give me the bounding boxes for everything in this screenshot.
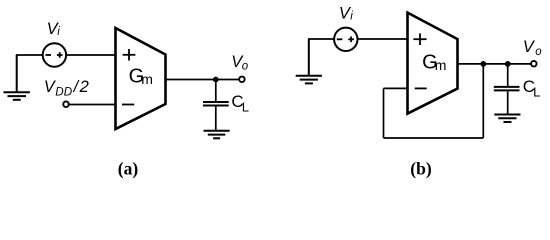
op-amp Gm (a) : OTA trapezoid (116, 28, 166, 129)
output terminal Vo (b) open circle (531, 61, 537, 66)
wire capacitor to ground (b) (507, 91, 509, 114)
op-amp Gm (b) : OTA trapezoid (408, 13, 458, 114)
svg-text:m: m (435, 57, 447, 73)
output wire (a) (166, 79, 239, 81)
wire from left ground corner to Vi source (a) (16, 54, 43, 56)
input terminal VDD/2 (a) open circle (63, 101, 69, 107)
ground (a) left under Vi source (4, 55, 30, 100)
svg-text:i: i (57, 26, 60, 38)
svg-text:o: o (535, 46, 542, 58)
voltage source Vi (a) (43, 43, 66, 66)
junction node dot (a) (213, 77, 219, 83)
wire feedback vertical right up to output node (b) (482, 64, 484, 138)
wire node to capacitor (a) (215, 80, 217, 102)
output terminal Vo (a) open circle (239, 77, 245, 83)
plus input marker inside amp (b) (413, 33, 426, 45)
ground (a) under capacitor (204, 131, 230, 139)
wire Vi source to op-amp + input (a) (66, 54, 116, 56)
label Gm (a) (129, 66, 153, 88)
ground (b) under Vi source (296, 39, 322, 83)
ground (b) under capacitor (494, 115, 520, 123)
junction node dot feedback (b) (480, 61, 486, 67)
label CL (a) (231, 92, 249, 114)
capacitor CL (a) (203, 102, 229, 106)
label Gm (b) (422, 52, 446, 74)
svg-text:L: L (533, 84, 540, 99)
label V_i (a) (47, 20, 61, 38)
label VDD/2 (a) (44, 78, 89, 99)
svg-text:(a): (a) (118, 159, 139, 179)
plus input marker inside amp (a) (123, 49, 136, 61)
wire capacitor to ground (a) (215, 106, 217, 130)
wire feedback from - input: left segment (b) (384, 87, 409, 89)
wire Vi source to op-amp + input (b) (358, 38, 409, 40)
svg-text:o: o (242, 61, 249, 73)
label CL (b) (523, 77, 541, 99)
svg-text:2: 2 (79, 78, 89, 96)
svg-text:L: L (242, 99, 249, 114)
wire feedback bottom horizontal (b) (384, 137, 484, 139)
wire node to capacitor (b) (507, 64, 509, 86)
label Vo (b) (523, 38, 543, 58)
minus input marker inside amp (b) (415, 87, 427, 89)
svg-text:i: i (350, 11, 353, 23)
label Vo (a) (231, 53, 249, 73)
wire VDD/2 terminal to op-amp - input (a) (69, 104, 116, 106)
junction node dot capacitor (b) (505, 61, 511, 67)
svg-text:DD: DD (55, 86, 72, 99)
svg-text:(b): (b) (410, 159, 432, 179)
voltage source Vi (b) (334, 28, 357, 51)
minus input marker inside amp (a) (122, 104, 134, 106)
wire feedback vertical left (b) (383, 88, 385, 138)
capacitor CL (b) (494, 87, 520, 91)
svg-text:m: m (141, 71, 153, 87)
wire ground corner to Vi source (b) (308, 38, 334, 40)
label V_i (b) (339, 5, 353, 23)
output wire (b) (458, 63, 531, 65)
